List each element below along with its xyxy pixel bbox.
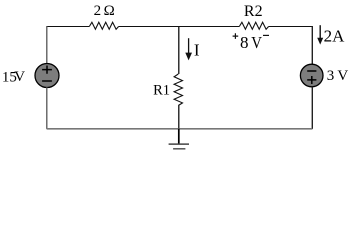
svg-text:8: 8 (240, 33, 249, 52)
resistor R2 (239, 22, 268, 29)
wire top-left segment (47, 26, 90, 28)
current arrow 2A (317, 25, 323, 44)
svg-text:2A: 2A (324, 26, 346, 45)
svg-text:R1: R1 (153, 82, 170, 98)
wire bottom (47, 128, 313, 130)
label +8V- polarity (233, 33, 269, 52)
wire right vertical lower (311, 87, 313, 129)
wire right vertical upper (311, 26, 313, 65)
wire left vertical lower (46, 87, 48, 129)
svg-text:R2: R2 (244, 3, 263, 20)
voltage source 15V (35, 64, 59, 88)
wire middle vertical lower (178, 106, 180, 130)
wire top-middle segment (119, 26, 240, 28)
svg-text:V: V (337, 68, 348, 84)
svg-text:I: I (194, 40, 200, 59)
svg-text:2: 2 (94, 3, 102, 19)
voltage source 3V (300, 64, 323, 87)
ground (169, 129, 189, 149)
wire middle vertical upper (178, 27, 180, 75)
svg-text:3: 3 (327, 68, 335, 84)
wire left vertical upper (46, 26, 48, 64)
svg-text:Ω: Ω (104, 3, 115, 19)
svg-text:V: V (251, 34, 262, 52)
resistor R1 (174, 74, 182, 106)
svg-text:V: V (14, 69, 25, 85)
wire top-right segment (269, 26, 313, 28)
resistor 2ohm (89, 22, 118, 29)
current arrow I (185, 38, 192, 60)
